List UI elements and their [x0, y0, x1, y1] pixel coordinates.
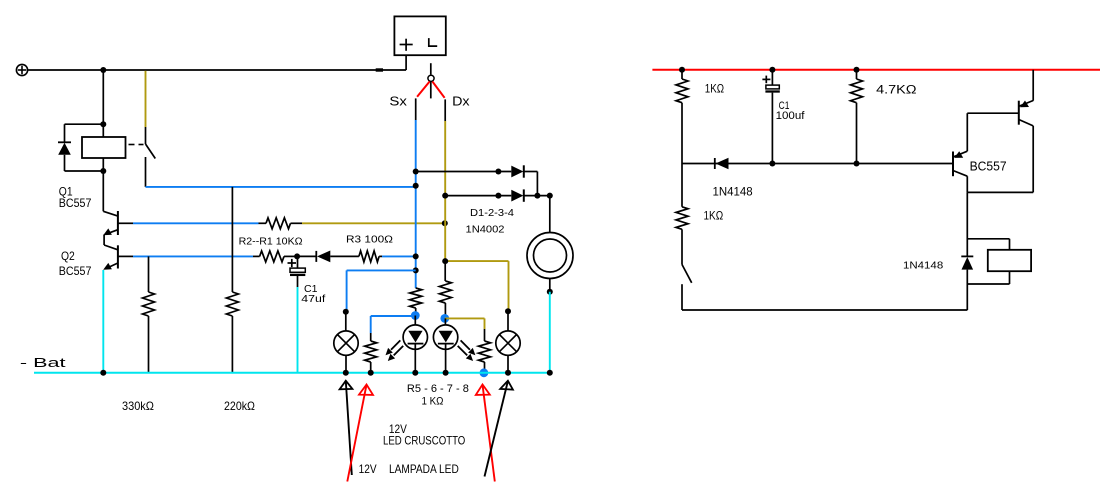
junction gnd LED1: [412, 370, 418, 376]
svg-text:220kΩ: 220kΩ: [224, 399, 255, 413]
wire ignition pole: [430, 63, 432, 74]
resistor R5: [370, 333, 372, 341]
transistor T1: [952, 152, 954, 177]
resistor 4.7K: [856, 70, 858, 79]
resistor R3: [359, 251, 379, 262]
LED2 arrows: [461, 340, 470, 349]
wire diode to bottom: [966, 270, 968, 310]
resistor 1K upper: [681, 70, 683, 79]
junction red-4.7k: [854, 67, 860, 73]
junction red-1k: [679, 67, 685, 73]
junction relay top: [100, 121, 106, 127]
relay K1 coil: [82, 137, 126, 158]
junction lamp2 top: [505, 308, 511, 314]
resistor 1K lower: [681, 164, 683, 207]
wire motor ground: [549, 292, 551, 373]
ignition switch pivot: [428, 75, 434, 81]
svg-text:Q2: Q2: [61, 249, 75, 263]
wire motor bottom: [549, 279, 551, 292]
junction D1 anode: [495, 169, 501, 175]
transistor T2: [1018, 101, 1020, 125]
junction gnd LED2: [443, 370, 449, 376]
rail net tick: [376, 68, 383, 71]
wire diode top branch: [65, 123, 104, 125]
LED LED2: [444, 318, 446, 325]
wire Q1 base blue: [133, 222, 259, 224]
junction motor corner: [547, 193, 553, 199]
junction lamp1 top: [343, 309, 349, 315]
wire D1 row: [416, 171, 512, 173]
arrow red R8: [483, 385, 495, 482]
junction blue R8 gnd: [480, 368, 489, 377]
arrow black lamp1: [346, 381, 352, 475]
wire blue net A: [146, 186, 416, 188]
junction gnd Q2: [100, 370, 106, 376]
svg-text:12V: 12V: [359, 464, 377, 476]
arrow black lamp2: [485, 381, 508, 477]
wire red supply rail: [652, 69, 1100, 71]
svg-text:1N4148: 1N4148: [713, 187, 753, 199]
svg-text:R5 - 6 - 7 - 8: R5 - 6 - 7 - 8: [407, 383, 469, 395]
resistor 330k: [148, 256, 150, 292]
junction D1-D2: [534, 193, 540, 199]
wire collector down: [966, 192, 968, 256]
wire battery to rail: [405, 55, 407, 70]
switch S2: [682, 265, 692, 283]
wire Dx lead: [444, 99, 446, 121]
wire R3 to Sx net: [382, 255, 416, 257]
junction olive R1: [442, 220, 448, 226]
wire Q1-Q2 link: [103, 235, 105, 246]
junction D2 anode: [495, 193, 501, 199]
wire switch feed: [145, 71, 147, 127]
diode 1N4148 b: [961, 255, 973, 257]
wire olive to lamp2: [445, 260, 508, 262]
svg-text:R2--R1 10KΩ: R2--R1 10KΩ: [239, 237, 304, 248]
wire pole center: [430, 82, 432, 98]
junction Sx-D1: [413, 169, 419, 175]
junction olive-lamp2 tee: [442, 258, 448, 264]
relay K2 branch top: [967, 238, 1009, 240]
wire base row: [682, 163, 953, 165]
transistor Q1: [117, 211, 119, 235]
wire C1 to ground: [297, 287, 299, 373]
lamp L2: [507, 311, 509, 331]
wire Sx lead: [415, 98, 417, 120]
motor M1: [527, 233, 573, 279]
junction C1 top: [294, 253, 300, 259]
wire R1 to Dx net: [302, 222, 445, 224]
svg-text:100uf: 100uf: [776, 110, 806, 122]
svg-text:1N4148: 1N4148: [903, 260, 943, 272]
svg-text:D1-2-3-4: D1-2-3-4: [470, 208, 514, 219]
junction gnd lamp1: [343, 370, 349, 376]
LED1 arrows: [391, 340, 400, 349]
svg-text:R3 100Ω: R3 100Ω: [346, 235, 394, 246]
resistor 220k: [231, 187, 233, 292]
svg-text:- Bat: - Bat: [20, 355, 66, 370]
svg-text:47uf: 47uf: [301, 293, 325, 305]
wire top positive rail: [28, 69, 407, 71]
junction 4.7k-baserow: [854, 161, 860, 167]
junction Dx-D2: [442, 193, 448, 199]
junction blue led1: [411, 311, 420, 320]
wire T1 collector: [966, 176, 968, 192]
wire relay feed: [102, 70, 104, 124]
resistor R2: [253, 255, 260, 257]
svg-text:1KΩ: 1KΩ: [704, 208, 724, 222]
wire T1 emitter up: [966, 113, 968, 151]
wire T2 emitter: [1032, 70, 1034, 101]
svg-text:BC557: BC557: [59, 196, 92, 210]
svg-text:1 KΩ: 1 KΩ: [422, 396, 444, 408]
junction c1-baserow: [769, 161, 775, 167]
wire Dx olive net: [444, 121, 446, 261]
wire Q1 collector: [102, 171, 104, 211]
junction relay bottom: [100, 168, 106, 174]
resistor R-led2 upper: [444, 261, 446, 281]
wire diode bottom branch: [64, 155, 66, 171]
diode D1: [511, 166, 523, 178]
wire red blade Sx: [417, 82, 430, 97]
svg-text:LAMPADA LED: LAMPADA LED: [389, 464, 459, 476]
svg-text:Sx: Sx: [389, 94, 407, 109]
svg-text:4.7KΩ: 4.7KΩ: [876, 83, 917, 97]
relay actuator dashes: [129, 144, 135, 146]
relay K2 coil: [988, 250, 1031, 271]
resistor R8: [484, 329, 486, 341]
svg-text:1N4002: 1N4002: [466, 223, 505, 235]
svg-text:Dx: Dx: [452, 94, 470, 109]
battery connector box: [394, 16, 445, 55]
node + battery positive terminal: [16, 64, 27, 75]
diode D2: [511, 190, 523, 202]
wire bottom row: [682, 309, 967, 311]
wire lamp1 blue feed: [347, 269, 416, 271]
wire Sx blue net: [415, 120, 417, 280]
junction motor-gnd: [547, 289, 553, 295]
junction red-c1: [769, 67, 775, 73]
wire D2 row: [445, 195, 511, 197]
wire led2 olive: [445, 317, 485, 319]
wire R5 blue: [371, 315, 416, 317]
svg-text:12V: 12V: [389, 424, 407, 436]
wire motor feed: [549, 196, 551, 233]
wire red blade Dx: [432, 82, 444, 98]
diode 1N4148 a: [714, 158, 716, 169]
svg-text:1KΩ: 1KΩ: [705, 82, 724, 96]
junction rail-relay: [100, 67, 106, 73]
wire ground rail cyan: [34, 372, 550, 374]
arrow red R5: [347, 385, 366, 482]
diode relay flyback: [58, 141, 71, 143]
junction Sx-lamp1wire: [413, 267, 419, 273]
diode D5: [297, 255, 317, 257]
lamp L1: [345, 312, 347, 332]
svg-text:330kΩ: 330kΩ: [122, 399, 154, 413]
transistor Q2: [117, 245, 119, 268]
svg-text:LED CRUSCOTTO: LED CRUSCOTTO: [383, 436, 465, 448]
svg-text:BC557: BC557: [59, 264, 92, 278]
junction gnd motor: [547, 370, 553, 376]
wire Q2 emitter: [102, 270, 104, 373]
capacitor C1 100uf: [771, 70, 773, 85]
resistor R-led1 upper: [415, 280, 417, 289]
relay K2 branch bottom: [1009, 271, 1011, 284]
wire relay leads: [102, 124, 104, 137]
switch S1: [145, 127, 147, 144]
junction Sx-netA: [413, 183, 419, 189]
resistor R1: [259, 222, 267, 224]
wire Q2 base blue: [133, 255, 253, 257]
junction blue led2: [440, 314, 449, 323]
capacitor C1 47uf: [297, 256, 299, 268]
svg-text:BC557: BC557: [970, 159, 1007, 173]
junction gnd lamp2: [505, 370, 511, 376]
junction gnd R5: [368, 370, 374, 376]
junction Sx-R3: [413, 253, 419, 259]
LED LED1: [414, 316, 416, 326]
wire T2 collector: [1032, 126, 1034, 192]
